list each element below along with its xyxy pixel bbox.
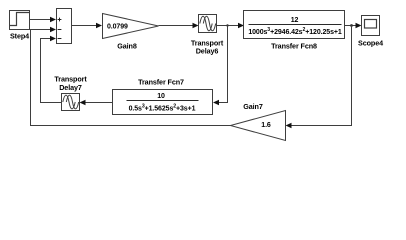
svg-text:Scope4: Scope4 [358, 38, 383, 47]
svg-text:Transfer Fcn8: Transfer Fcn8 [271, 42, 317, 51]
svg-text:0.5s3+1.5625s2+3s+1: 0.5s3+1.5625s2+3s+1 [129, 104, 196, 113]
wire Transport Delay7 to Sum input 3 [41, 39, 62, 103]
sum block [57, 9, 72, 44]
wire Gain7 to Sum input 2 [31, 30, 231, 126]
transfer fcn block Transfer Fcn7 [113, 90, 213, 115]
svg-text:Delay7: Delay7 [59, 83, 82, 92]
wire Gain8 to Transport Delay6 [159, 25, 194, 27]
sum sign plus [58, 18, 62, 39]
transport delay block Delay6 [199, 15, 217, 33]
gain Gain7 triangle (points left) [231, 111, 286, 141]
scope block Scope4 [362, 16, 380, 36]
sum sign minus 2 [58, 38, 62, 40]
transport delay block Delay7 [62, 94, 80, 111]
wire Delay6 to Transfer Fcn8 [217, 25, 240, 27]
svg-text:Transfer Fcn7: Transfer Fcn7 [138, 78, 184, 87]
svg-text:0.0799: 0.0799 [107, 23, 128, 30]
wire Transfer Fcn7 to Transport Delay7 [85, 102, 113, 104]
fraction bar [127, 100, 199, 102]
svg-text:10: 10 [157, 93, 165, 100]
svg-text:1000s3+2946.42s2+120.25s+1: 1000s3+2946.42s2+120.25s+1 [248, 27, 342, 36]
svg-text:Gain8: Gain8 [117, 42, 137, 51]
wire branch down to Transfer Fcn7 [218, 26, 228, 103]
wire Sum to Gain8 [72, 25, 98, 27]
step source Step4 [10, 11, 30, 30]
svg-text:Step4: Step4 [10, 32, 29, 41]
svg-text:1.6: 1.6 [261, 122, 271, 129]
svg-text:Delay6: Delay6 [196, 46, 219, 55]
transfer fcn block Transfer Fcn8 [244, 11, 345, 39]
wire Step4 to Sum [30, 19, 52, 21]
junction node after Delay6 [226, 24, 228, 26]
wire Transfer Fcn8 to Scope4 [345, 25, 357, 27]
fraction bar [249, 24, 342, 26]
wire branch down to Gain7 [290, 26, 352, 126]
svg-text:Gain7: Gain7 [243, 102, 263, 111]
junction node before Scope4 [350, 24, 353, 27]
sum sign minus 1 [58, 29, 62, 31]
svg-text:12: 12 [291, 17, 299, 24]
gain Gain8 triangle [103, 14, 159, 39]
